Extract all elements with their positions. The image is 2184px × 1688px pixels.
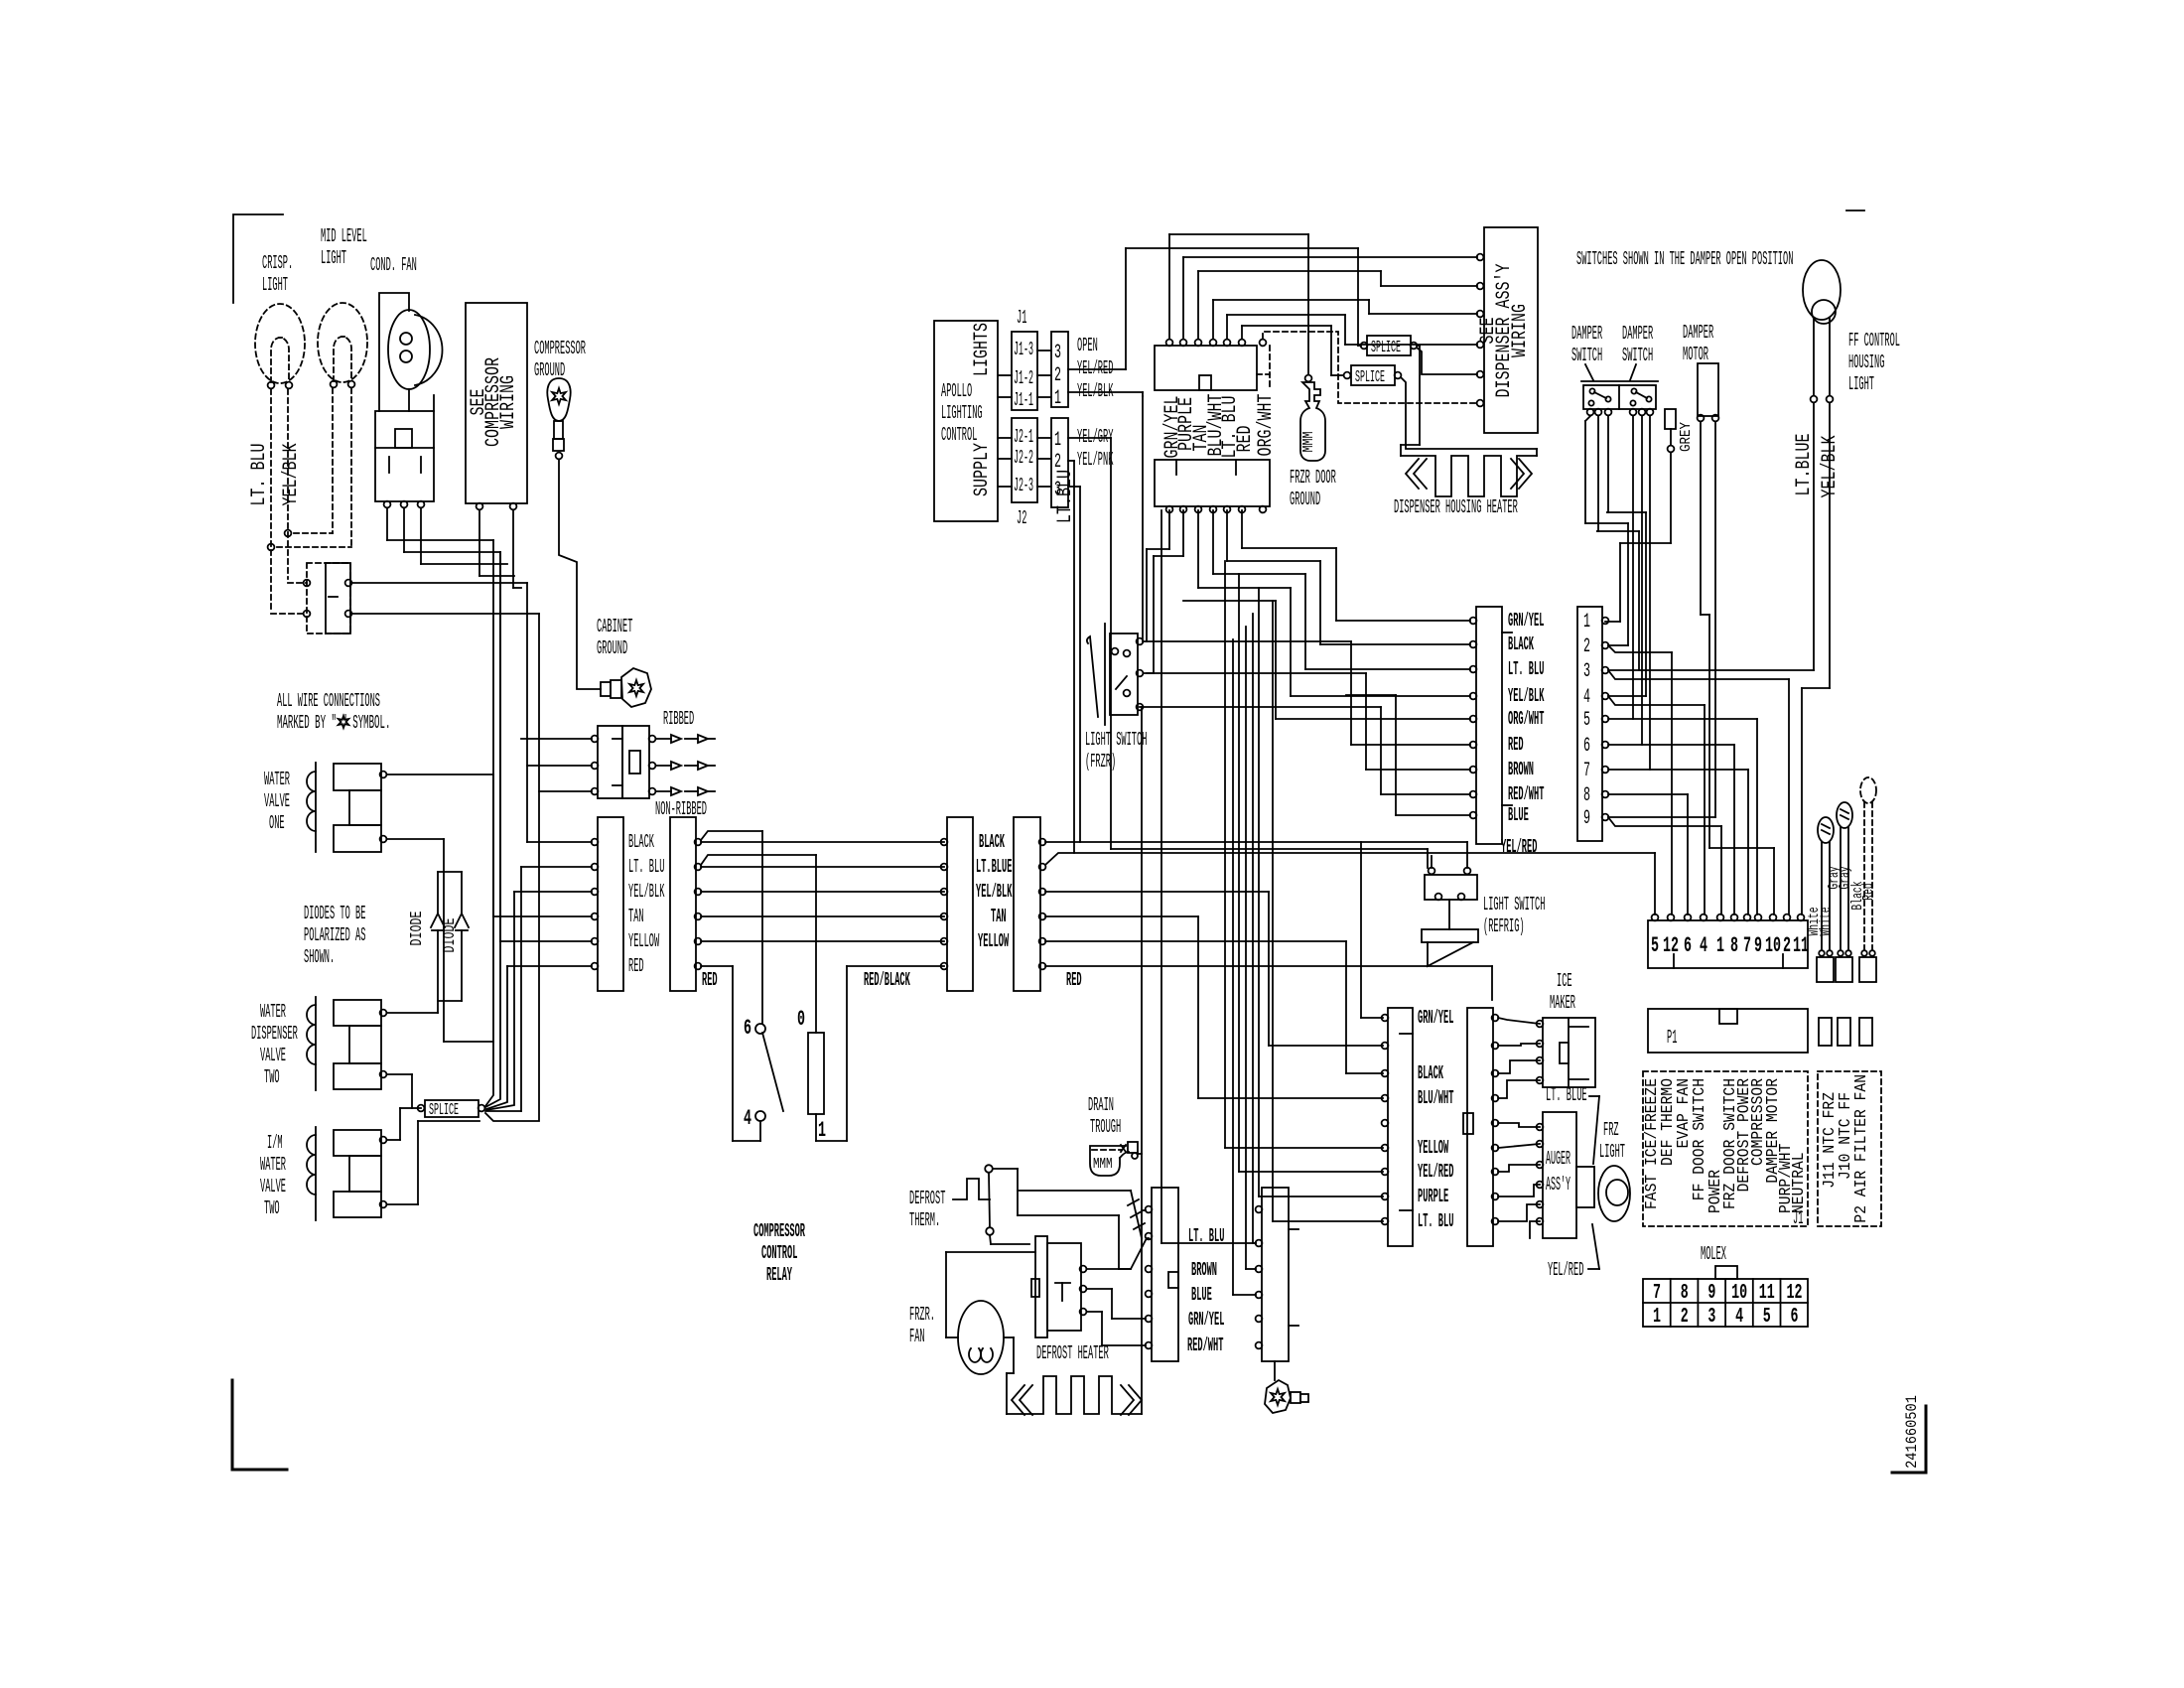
coil compressor control relay — [808, 1033, 824, 1114]
connector strip B — [670, 817, 696, 991]
connector strip F — [1467, 1008, 1493, 1246]
svg-text:P2 AIR FILTER FAN: P2 AIR FILTER FAN — [1852, 1074, 1871, 1223]
svg-text:COND. FAN: COND. FAN — [370, 254, 417, 276]
lamp frzr fan — [958, 1301, 1004, 1374]
svg-text:1: 1 — [818, 1118, 826, 1143]
svg-text:5: 5 — [1763, 1306, 1771, 1329]
svg-text:9: 9 — [1754, 933, 1762, 958]
wire top pin3 to dispenser — [1197, 271, 1199, 339]
drain trough — [1090, 1146, 1126, 1176]
svg-text:BLUE: BLUE — [1191, 1284, 1212, 1306]
svg-text:ORG/WHT: ORG/WHT — [1508, 708, 1544, 730]
svg-text:DAMPER: DAMPER — [1683, 322, 1713, 344]
svg-text:TAN: TAN — [628, 906, 644, 927]
wire cond fan t3 down — [420, 508, 422, 564]
wire top pin1 to frzr door ground — [1168, 234, 1170, 339]
svg-text:1: 1 — [1583, 611, 1590, 633]
svg-text:YEL/BLK: YEL/BLK — [1819, 436, 1842, 498]
svg-text:J1: J1 — [1017, 307, 1026, 329]
svg-text:VALVE: VALVE — [264, 790, 290, 812]
svg-text:ASS'Y: ASS'Y — [1546, 1174, 1570, 1196]
svg-text:3: 3 — [1054, 342, 1061, 364]
wire TAN row from strip D — [1045, 915, 1198, 917]
wire splice fan-out — [485, 540, 493, 1106]
wire cond fan t2 down — [403, 508, 405, 552]
svg-text:2: 2 — [1583, 635, 1590, 658]
connectors small right of P1 — [1819, 1018, 1832, 1046]
wire water dispenser valve two bottom — [387, 1073, 412, 1075]
svg-text:ICE: ICE — [1557, 970, 1572, 992]
svg-text:WATER: WATER — [260, 1001, 286, 1023]
lamp FF control housing light — [1803, 260, 1841, 320]
wire bundle pins down middle — [1168, 510, 1170, 549]
svg-text:6: 6 — [1791, 1306, 1799, 1329]
svg-text:YEL/BLK: YEL/BLK — [1077, 380, 1114, 402]
svg-text:RED: RED — [1508, 734, 1524, 756]
wire defrost therm top to G strip — [993, 1168, 1018, 1170]
svg-text:THERM.: THERM. — [909, 1209, 940, 1231]
svg-text:LIGHT: LIGHT — [1848, 373, 1874, 395]
svg-text:1: 1 — [1716, 933, 1724, 958]
heater defrost heater — [1007, 1376, 1142, 1414]
svg-text:TROUGH: TROUGH — [1090, 1116, 1121, 1138]
svg-text:P1: P1 — [1667, 1027, 1677, 1049]
svg-text:RED: RED — [702, 969, 718, 991]
connector J2 — [1012, 418, 1037, 502]
svg-text:DAMPER: DAMPER — [1571, 323, 1602, 345]
svg-text:FAN: FAN — [909, 1326, 925, 1347]
svg-text:2: 2 — [1054, 364, 1061, 387]
svg-text:LIGHT: LIGHT — [321, 247, 346, 269]
svg-text:DIODES TO BE: DIODES TO BE — [304, 903, 365, 924]
svg-text:Red: Red — [1860, 883, 1877, 900]
svg-text:MARKED BY " " SYMBOL.: MARKED BY " " SYMBOL. — [277, 712, 390, 734]
svg-text:J2-2: J2-2 — [1014, 447, 1033, 469]
svg-text:YELLOW: YELLOW — [978, 930, 1009, 952]
wire middle vertical to H-strip — [1160, 510, 1162, 1243]
svg-text:8: 8 — [1730, 933, 1738, 958]
svg-text:TWO: TWO — [264, 1197, 280, 1219]
svg-text:FRZR DOOR: FRZR DOOR — [1290, 467, 1336, 489]
svg-text:HOUSING: HOUSING — [1848, 352, 1884, 373]
wire BLACK branch to relay switch — [701, 831, 762, 840]
svg-text:10: 10 — [1731, 1282, 1747, 1305]
wire YELLOW row from strip D — [1045, 940, 1346, 942]
svg-text:ORG/WHT: ORG/WHT — [1255, 394, 1278, 457]
connector grey — [1665, 409, 1676, 429]
border tick top-left — [233, 214, 283, 303]
wire RED row to relay — [701, 965, 733, 967]
wire FF light YEL/BLK down to bottom 11 — [1829, 403, 1831, 688]
svg-text:ONE: ONE — [269, 812, 285, 834]
wire grey to pin1 — [1670, 453, 1672, 543]
svg-text:J2-3: J2-3 — [1014, 475, 1033, 496]
svg-text:MOTOR: MOTOR — [1683, 344, 1708, 365]
auger assembly — [1543, 1112, 1576, 1238]
wire YEL/BLK from plug — [1068, 391, 1143, 393]
switch light switch (frzr) — [1104, 624, 1106, 725]
svg-text:CONTROL: CONTROL — [941, 424, 977, 446]
svg-text:4: 4 — [1583, 686, 1590, 709]
ground lug compressor ground — [547, 378, 570, 421]
wire cond fan t1 down — [386, 508, 388, 540]
switch compressor control relay contact — [755, 1024, 765, 1034]
svg-text:SWITCHES SHOWN IN THE DAMPER O: SWITCHES SHOWN IN THE DAMPER OPEN POSITI… — [1576, 248, 1793, 270]
box SEE DISPENSER ASS'Y WIRING — [1484, 227, 1538, 433]
wire water dispenser valve two top — [387, 1012, 438, 1014]
svg-text:(REFRIG): (REFRIG) — [1483, 915, 1525, 937]
wire YEL/BLK from crisper light (dashed) — [287, 389, 289, 579]
wire bundle apollo connector down to freezer light switch — [1142, 396, 1144, 641]
svg-text:PURPLE: PURPLE — [1418, 1186, 1448, 1207]
wires into big strip from left (nested) — [1336, 620, 1470, 622]
svg-text:YEL/BLK: YEL/BLK — [976, 881, 1013, 903]
wires numbered strip pins to bottom connector — [1608, 645, 1672, 652]
svg-text:RED: RED — [1234, 426, 1257, 453]
svg-text:SPLICE: SPLICE — [1355, 368, 1385, 387]
svg-text:WATER: WATER — [264, 769, 290, 790]
connector ribbed/non-ribbed — [598, 726, 622, 798]
splice B — [1351, 365, 1395, 385]
ground frzr door ground — [1305, 375, 1312, 382]
connector strip H — [1262, 1188, 1289, 1361]
connector strip D — [1014, 817, 1040, 991]
svg-text:GROUND: GROUND — [597, 637, 627, 659]
svg-text:J1-2: J1-2 — [1014, 367, 1033, 389]
svg-text:RED: RED — [628, 955, 644, 977]
svg-text:YEL/PNK: YEL/PNK — [1077, 449, 1114, 471]
svg-text:J2-1: J2-1 — [1014, 426, 1033, 448]
svg-text:7: 7 — [1653, 1282, 1661, 1305]
box SEE COMPRESSOR WIRING — [466, 303, 527, 503]
svg-text:RED: RED — [1066, 969, 1082, 991]
motor damper motor — [1698, 363, 1718, 416]
svg-text:TWO: TWO — [264, 1066, 280, 1088]
svg-text:LT. BLU: LT. BLU — [1508, 658, 1544, 680]
svg-text:MMM: MMM — [1300, 432, 1317, 453]
wire compressor ground to cabinet ground — [559, 460, 601, 689]
svg-text:WIRING: WIRING — [1509, 304, 1532, 357]
connector plug 1-2-3 — [1051, 418, 1068, 507]
sensor NTC white/white — [1818, 817, 1834, 843]
svg-text:11: 11 — [1759, 1282, 1775, 1305]
border bracket bottom-right with part number 241660501 — [1925, 1406, 1928, 1473]
svg-text:I/M: I/M — [267, 1132, 283, 1154]
svg-text:LT.BLUE: LT.BLUE — [976, 856, 1012, 878]
svg-text:3: 3 — [1583, 660, 1590, 683]
wires damper switches to connector pins — [1585, 416, 1590, 421]
wire top pin4 to dispenser — [1212, 300, 1214, 339]
ground lug cabinet ground — [601, 682, 611, 696]
wire I/M valve top to splice — [387, 1139, 400, 1141]
wire H strip to ground lug — [1274, 1361, 1276, 1380]
svg-text:6: 6 — [744, 1016, 751, 1041]
svg-text:FF CONTROL: FF CONTROL — [1848, 330, 1900, 352]
wires strip F to ice maker — [1498, 1018, 1540, 1024]
svg-text:J1-3: J1-3 — [1014, 339, 1033, 360]
wire refrig switch to YEL/RED row — [1431, 856, 1433, 868]
wires J1 to plug — [1037, 350, 1051, 352]
svg-text:POLARIZED AS: POLARIZED AS — [304, 924, 365, 946]
svg-text:AUGER: AUGER — [1546, 1148, 1570, 1170]
svg-text:YEL/GRY: YEL/GRY — [1077, 426, 1114, 448]
wire light switch to BLACK row — [352, 582, 527, 584]
wire freezer switch bottom run down to drain/heater — [1140, 706, 1142, 708]
wire defrost therm bottom to motor — [990, 1235, 991, 1244]
svg-text:3: 3 — [1707, 1306, 1715, 1329]
connector plug 3-2-1 — [1051, 332, 1068, 407]
svg-text:2: 2 — [1681, 1306, 1689, 1329]
svg-text:GRN/YEL: GRN/YEL — [1418, 1007, 1453, 1029]
svg-text:DEFROST HEATER: DEFROST HEATER — [1036, 1342, 1109, 1364]
wire water valve one bottom — [387, 838, 444, 840]
svg-text:LIGHT: LIGHT — [1599, 1141, 1625, 1163]
wire compressor box t1 down — [478, 510, 480, 576]
wire light switch lower — [352, 613, 539, 615]
wires from frzr switch to big strip rows — [1144, 640, 1351, 642]
svg-text:0: 0 — [797, 1007, 805, 1032]
ice maker — [1543, 1018, 1595, 1087]
connector cond fan — [375, 411, 434, 501]
wire taps to terminal strip rows — [521, 866, 592, 868]
wire YEL/RED long row (diagonal from strip D) — [1045, 853, 1655, 865]
svg-text:MOLEX: MOLEX — [1701, 1243, 1726, 1265]
svg-text:LIGHTS: LIGHTS — [971, 323, 994, 376]
svg-text:YEL/RED: YEL/RED — [1418, 1161, 1453, 1183]
svg-text:6: 6 — [1583, 735, 1590, 758]
svg-text:1: 1 — [1054, 429, 1061, 452]
svg-text:WIRING: WIRING — [497, 375, 520, 429]
border bracket bottom-left — [231, 1380, 234, 1470]
svg-text:YEL/RED: YEL/RED — [1548, 1259, 1583, 1281]
motor evap fan / defrost assembly — [1035, 1236, 1047, 1337]
wire splice B to heater right — [1401, 377, 1537, 449]
svg-text:12: 12 — [1663, 933, 1679, 958]
svg-text:8: 8 — [1583, 784, 1590, 807]
wire RED long row from strip D — [1045, 965, 1492, 967]
solenoid water dispenser valve two — [315, 997, 317, 1090]
svg-text:SPLICE: SPLICE — [429, 1101, 459, 1120]
lamp mid level light — [318, 303, 367, 382]
svg-text:White: White — [1818, 908, 1835, 936]
connector freezer door harness bottom — [1155, 460, 1270, 506]
svg-text:YELLOW: YELLOW — [628, 930, 659, 952]
svg-text:DIODE: DIODE — [408, 912, 427, 946]
svg-text:YEL/BLK: YEL/BLK — [280, 444, 303, 506]
wire YEL/GRY from plug — [1068, 437, 1111, 439]
svg-text:5: 5 — [1651, 933, 1659, 958]
svg-text:RED/WHT: RED/WHT — [1508, 783, 1544, 805]
svg-text:MAKER: MAKER — [1550, 992, 1575, 1014]
svg-text:4: 4 — [744, 1106, 751, 1131]
svg-text:LIGHTING: LIGHTING — [941, 402, 983, 424]
svg-text:SHOWN.: SHOWN. — [304, 946, 335, 968]
connector big label strip — [1476, 607, 1502, 844]
svg-text:4: 4 — [1735, 1306, 1743, 1329]
svg-text:8: 8 — [1681, 1282, 1689, 1305]
svg-text:APOLLO: APOLLO — [941, 380, 972, 402]
wire rows strip B to strip C — [701, 841, 944, 843]
svg-text:MID LEVEL: MID LEVEL — [321, 225, 367, 247]
svg-text:DISPENSER: DISPENSER — [251, 1023, 298, 1045]
connector J11/J10/P2 names (dashed box) — [1818, 1071, 1881, 1226]
wire frzr fan right to heater — [1004, 1336, 1014, 1338]
heater dispenser housing heater — [1401, 456, 1537, 496]
svg-text:BLACK: BLACK — [1418, 1062, 1443, 1084]
wire splice A to dispenser and heater — [1417, 348, 1477, 374]
connector strip E — [1388, 1008, 1413, 1246]
connector molex table — [1715, 1266, 1737, 1279]
wire BLACK long row from strip D — [1045, 841, 1467, 843]
svg-text:NON-RIBBED: NON-RIBBED — [655, 798, 707, 820]
svg-text:BLUE: BLUE — [1508, 804, 1529, 826]
wire top pin2 to dispenser — [1182, 257, 1184, 339]
svg-text:7: 7 — [1583, 760, 1590, 782]
connector J1 signal names (dashed box) — [1643, 1071, 1808, 1226]
svg-text:9: 9 — [1707, 1282, 1715, 1305]
svg-text:BLACK: BLACK — [979, 831, 1005, 853]
wire top pin6 to splice B — [1241, 326, 1243, 339]
switch damper switch assembly — [1581, 380, 1658, 382]
svg-text:DAMPER: DAMPER — [1622, 323, 1653, 345]
svg-text:2: 2 — [1783, 933, 1791, 958]
svg-text:RIBBED: RIBBED — [663, 708, 694, 730]
motor cond fan outline — [379, 293, 409, 411]
wire LT.BLU branch to relay coil — [701, 855, 816, 865]
svg-text:OPEN: OPEN — [1077, 335, 1098, 356]
wire compressor box t2 down — [512, 510, 514, 588]
wire water valve one top — [387, 774, 493, 775]
svg-text:241660501: 241660501 — [1903, 1395, 1921, 1469]
svg-text:10: 10 — [1765, 933, 1781, 958]
svg-text:COMPRESSOR: COMPRESSOR — [753, 1220, 805, 1242]
svg-text:RED/BLACK: RED/BLACK — [864, 969, 910, 991]
svg-text:J1: J1 — [1793, 1207, 1803, 1229]
wire FF light LT.BLUE down to pin3 — [1813, 403, 1815, 670]
svg-text:LIGHT SWITCH: LIGHT SWITCH — [1085, 729, 1147, 751]
svg-text:COMPRESSOR: COMPRESSOR — [534, 338, 586, 359]
splice A — [1367, 336, 1411, 355]
solenoid water valve one — [315, 763, 317, 852]
svg-text:YEL/BLK: YEL/BLK — [1508, 685, 1545, 707]
lamp frz light — [1598, 1166, 1630, 1221]
wire YEL/PNK from plug — [1068, 460, 1074, 462]
svg-text:WATER: WATER — [260, 1154, 286, 1176]
border tick top-right — [1846, 210, 1864, 211]
box APOLLO LIGHTING CONTROL — [934, 321, 998, 521]
svg-text:FRZR.: FRZR. — [909, 1304, 935, 1326]
svg-text:LT. BLU: LT. BLU — [1188, 1225, 1224, 1247]
svg-text:7: 7 — [1743, 933, 1751, 958]
switch light switch (refrig) — [1425, 875, 1477, 900]
svg-text:YELLOW: YELLOW — [1418, 1137, 1448, 1159]
svg-text:RED/WHT: RED/WHT — [1187, 1335, 1223, 1356]
splice (water valves) — [425, 1100, 478, 1117]
svg-text:YEL/RED: YEL/RED — [1501, 836, 1537, 858]
svg-text:YEL/BLK: YEL/BLK — [628, 881, 665, 903]
wires evap motor to G strip — [1087, 1238, 1149, 1269]
svg-text:5: 5 — [1583, 709, 1590, 732]
wire diode bottoms join — [438, 1000, 462, 1002]
svg-text:BROWN: BROWN — [1508, 759, 1534, 780]
junction YEL/BLK to mid level light — [285, 530, 292, 537]
svg-text:MMM: MMM — [1093, 1156, 1113, 1173]
wires damper motor down — [1700, 422, 1702, 615]
svg-text:11: 11 — [1793, 933, 1809, 958]
wire LT. BLU from crisper light (dashed) — [270, 389, 272, 610]
svg-text:GREY: GREY — [1678, 422, 1695, 452]
svg-text:BLACK: BLACK — [628, 831, 654, 853]
connector freezer door harness top — [1155, 346, 1257, 390]
junction LT. BLU to mid level light — [268, 544, 275, 551]
svg-text:12: 12 — [1787, 1282, 1803, 1305]
svg-text:SWITCH: SWITCH — [1622, 345, 1653, 366]
sensor black/red dashed — [1860, 777, 1876, 803]
wire relay coil to RED/BLACK row — [815, 1114, 817, 1141]
svg-text:VALVE: VALVE — [260, 1045, 286, 1066]
wire YEL/BLK row from strip D — [1045, 891, 1269, 893]
svg-text:DEFROST: DEFROST — [909, 1188, 945, 1209]
connector strip G — [1152, 1188, 1178, 1361]
wire refrig switch t2 up — [1466, 842, 1468, 868]
svg-text:BROWN: BROWN — [1191, 1259, 1217, 1281]
svg-text:TAN: TAN — [991, 906, 1007, 927]
svg-text:SUPPLY: SUPPLY — [971, 443, 994, 496]
connector strip A — [598, 817, 623, 991]
svg-text:CRISP.: CRISP. — [262, 252, 293, 274]
svg-text:ALL WIRE CONNECTIONS: ALL WIRE CONNECTIONS — [277, 690, 380, 712]
svg-text:FRZ: FRZ — [1603, 1119, 1619, 1141]
wire top pin5 to dispenser — [1226, 315, 1228, 339]
wire diode tops join — [438, 871, 462, 873]
solenoid I/M water valve two — [315, 1127, 317, 1220]
wires into strip H from left — [1253, 1242, 1256, 1244]
sensor NTC gray/gray — [1837, 802, 1852, 828]
svg-text:DRAIN: DRAIN — [1088, 1094, 1114, 1116]
connector P1 — [1648, 1009, 1808, 1053]
svg-text:CABINET: CABINET — [597, 616, 632, 637]
svg-text:GRN/YEL: GRN/YEL — [1188, 1309, 1224, 1331]
connector strip C — [947, 817, 973, 991]
wire LT.BLU from plug — [1068, 486, 1080, 488]
connector bottom numbered — [1648, 920, 1808, 968]
svg-text:LT. BLU: LT. BLU — [248, 444, 271, 506]
svg-text:DISPENSER HOUSING HEATER: DISPENSER HOUSING HEATER — [1394, 496, 1518, 518]
svg-text:NEUTRAL: NEUTRAL — [1790, 1152, 1809, 1213]
svg-text:6: 6 — [1684, 933, 1692, 958]
svg-text:VALVE: VALVE — [260, 1176, 286, 1197]
wires J2 to plug — [1037, 437, 1051, 439]
svg-text:YEL/RED: YEL/RED — [1077, 357, 1113, 379]
svg-text:1: 1 — [1054, 387, 1061, 410]
svg-text:BLU/WHT: BLU/WHT — [1418, 1087, 1453, 1109]
svg-text:J1-1: J1-1 — [1014, 389, 1033, 411]
ground lug bottom right — [1265, 1380, 1291, 1413]
svg-text:1: 1 — [1653, 1306, 1661, 1329]
wires middle bundle down to strip E lower rows — [1224, 561, 1226, 1148]
svg-text:BLACK: BLACK — [1508, 633, 1534, 655]
wire YEL/RED from plug — [1068, 368, 1126, 370]
wire dashed pin7 to dispenser — [1263, 332, 1477, 403]
wires strip F to auger — [1498, 1123, 1540, 1127]
svg-text:CONTROL: CONTROL — [761, 1242, 797, 1264]
svg-text:GRN/YEL: GRN/YEL — [1508, 610, 1544, 632]
svg-text:LT.BLUE: LT.BLUE — [1793, 434, 1816, 496]
svg-text:LT. BLU: LT. BLU — [1418, 1210, 1453, 1232]
svg-text:4: 4 — [1700, 933, 1707, 958]
lamp crisper light — [255, 304, 305, 383]
wire I/M valve bottom — [387, 1203, 418, 1205]
